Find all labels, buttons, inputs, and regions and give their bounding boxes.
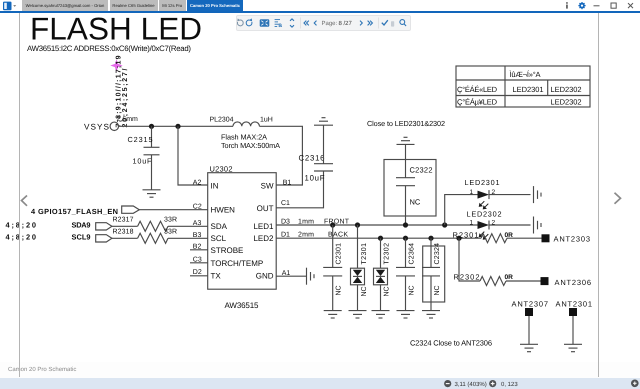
capacitor C2315 [144, 147, 160, 155]
svg-text:R2318: R2318 [113, 228, 134, 235]
svg-text:ÌûÆ¬Í»°A: ÌûÆ¬Í»°A [510, 70, 541, 79]
label PL2304 [210, 117, 234, 124]
svg-text:VSYS: VSYS [84, 123, 110, 132]
label NC C2324 rotated [434, 285, 441, 295]
table legend box [456, 66, 590, 107]
svg-text:SDA9: SDA9 [72, 221, 91, 230]
svg-text:R2317: R2317 [113, 217, 134, 224]
label 1uH [260, 117, 273, 124]
pad ANT2306 [541, 277, 549, 285]
label 1mm [298, 218, 314, 225]
fit screen icon [260, 19, 270, 27]
table header text [510, 70, 541, 79]
resistor R2302 [480, 277, 506, 286]
svg-text:2.6mm: 2.6mm [117, 116, 139, 123]
svg-text:B1: B1 [283, 179, 292, 186]
svg-text:OUT: OUT [257, 204, 274, 213]
label 2.6mm [117, 116, 139, 123]
pin number C3 [193, 256, 202, 263]
svg-text:SCL: SCL [211, 234, 227, 243]
wire C2315 to ground [151, 155, 153, 190]
next page chevrons [360, 21, 372, 26]
pin number C2 [193, 203, 202, 210]
svg-text:AW36515:I2C ADDRESS:0xC6(Write: AW36515:I2C ADDRESS:0xC6(Write)/0xC7(Rea… [27, 44, 191, 53]
ground C2301 [324, 311, 342, 318]
label R2317 [113, 217, 134, 224]
label U2302 [210, 164, 233, 173]
pin name STROBE [211, 246, 244, 255]
pin number D1 [281, 232, 290, 239]
led LED2301 [478, 190, 490, 199]
label LED2301 [465, 178, 500, 187]
wire SCL to resistor [112, 237, 138, 239]
wire LED2302 cathode [489, 224, 531, 226]
wire T2301 column [357, 225, 359, 311]
svg-text:ANT2307: ANT2307 [512, 299, 549, 308]
label NC C2301 rotated [336, 285, 343, 295]
ground C2315 [143, 190, 161, 197]
capacitor C2301 [323, 267, 342, 276]
pin name SW [261, 181, 274, 190]
svg-text:AW36515: AW36515 [225, 301, 260, 310]
label 33R row2 [164, 228, 177, 235]
label C2322 [410, 166, 433, 175]
rotated page ref text A [115, 55, 123, 127]
pin stub TORCH [190, 262, 208, 264]
svg-text:LED2: LED2 [253, 234, 274, 243]
label 2mm [298, 232, 314, 239]
pin name SDA [211, 222, 228, 231]
pin name LED2 [253, 234, 274, 243]
wire R2302 branch [459, 238, 480, 281]
rotate ccw icon [237, 18, 243, 25]
pin number B1 [283, 179, 292, 186]
label 4;8;20 row2 [6, 233, 37, 242]
svg-text:2mm: 2mm [298, 232, 314, 239]
pin name TORCH/TEMP [211, 259, 264, 268]
wire C2316 to top ground [323, 125, 325, 164]
node junction FRONT-LEDriser [442, 222, 447, 227]
svg-text:C2324 Close to ANT2306: C2324 Close to ANT2306 [410, 339, 492, 348]
pin number A2 [193, 179, 202, 186]
wire C2301 column [332, 225, 334, 311]
tvs diode T2301 [351, 268, 365, 285]
label T2301 rotated [361, 243, 368, 265]
search icon [400, 20, 406, 26]
wire C2322 to FRONT [405, 186, 407, 225]
pin number D3 [281, 218, 290, 225]
VSYS connector circle [110, 122, 118, 130]
svg-text:TORCH/TEMP: TORCH/TEMP [211, 259, 264, 268]
wire VSYS horizontal [119, 125, 234, 127]
svg-text:1: 1 [470, 189, 474, 196]
rotated page ref text B [121, 68, 129, 127]
label R2318 [113, 228, 134, 235]
wire SCL to IC [168, 237, 208, 239]
svg-text:NC: NC [410, 198, 421, 207]
svg-text:T2301: T2301 [361, 243, 368, 265]
svg-text:4;8;20: 4;8;20 [6, 233, 37, 242]
svg-text:Ç°ÉÁÉ«LED: Ç°ÉÁÉ«LED [457, 85, 498, 94]
pin 1 LED2302 [470, 219, 474, 226]
note C2324 close to ANT2306 [410, 339, 492, 348]
table row2 col3 [551, 85, 582, 94]
label ANT2301 [556, 299, 593, 308]
capacitor C2324 [422, 267, 440, 276]
svg-text:3,11 (403%): 3,11 (403%) [455, 381, 487, 388]
pin name IN [211, 181, 219, 190]
ground C2324 [422, 311, 440, 318]
svg-text:SDA: SDA [211, 222, 228, 231]
wire inductor to SW corner [259, 126, 302, 185]
wire HWEN [139, 209, 207, 211]
pad ANT2303 [542, 234, 550, 242]
wire R2302 to pad [506, 280, 541, 282]
label 10uF C2315 [133, 156, 153, 165]
svg-text:Page:: Page: [322, 20, 338, 27]
ground LED2301 right-facing [534, 186, 542, 203]
svg-text:R2302: R2302 [454, 273, 480, 282]
wire R2301 to pad [507, 237, 542, 239]
ground A1 right-facing [307, 268, 315, 285]
note close to LED [367, 119, 445, 128]
svg-text:a: a [278, 22, 282, 29]
label NC C2364 rotated [409, 285, 416, 295]
net flag SCL9 [96, 235, 112, 242]
label 4 GPIO157_FLASH_EN [31, 207, 118, 216]
svg-text:C2324: C2324 [434, 243, 441, 265]
svg-text:T2302: T2302 [384, 243, 391, 265]
node junction BACK-C2364 [403, 236, 408, 241]
pin 1 LED2301 [470, 189, 474, 196]
svg-text:LED1: LED1 [253, 222, 274, 231]
pin name LED1 [253, 222, 274, 231]
pin number B2 [193, 244, 202, 251]
svg-text:33R: 33R [164, 217, 177, 224]
svg-text:SCL9: SCL9 [72, 233, 91, 242]
pin name TX [211, 272, 222, 281]
label BACK [328, 232, 348, 239]
svg-text:NC: NC [434, 285, 441, 295]
ground T2302 [372, 311, 390, 318]
inductor PL2304 [233, 122, 259, 126]
label 4;8;20 row1 [6, 221, 37, 230]
first page chevrons [304, 21, 317, 26]
svg-text:GND: GND [256, 272, 274, 281]
footer strip [0, 362, 640, 378]
resistor R2301 [481, 234, 507, 243]
svg-text:LED2302: LED2302 [467, 210, 502, 219]
wire FRONT LED1 [276, 224, 477, 226]
nav chevron left [22, 196, 28, 206]
svg-text:4;8;20: 4;8;20 [6, 221, 37, 230]
annotate check icon [382, 20, 388, 25]
svg-text:1: 1 [470, 219, 474, 226]
ground T2301 [349, 311, 367, 318]
wire OUT [276, 171, 323, 208]
svg-text:A2: A2 [193, 179, 202, 186]
label C2301 rotated [336, 243, 343, 265]
node junction BACK-C2324 [428, 236, 433, 241]
pin name GND [256, 272, 274, 281]
node junction FRONT-T2301 [355, 222, 360, 227]
wire LED2301 cathode [489, 194, 531, 196]
svg-text:LED2301: LED2301 [465, 178, 500, 187]
svg-text:NC: NC [409, 285, 416, 295]
label NC C2322 [410, 198, 421, 207]
svg-text:STROBE: STROBE [211, 246, 244, 255]
nav chevron right [615, 193, 621, 204]
pin number D2 [193, 269, 202, 276]
ground C2364 [397, 311, 415, 318]
label ANT2303 [554, 234, 591, 243]
svg-text:IN: IN [211, 181, 219, 190]
svg-text:C2301: C2301 [336, 243, 343, 265]
label FRONT [324, 218, 350, 225]
wire C2364 column [405, 238, 407, 310]
resistor R2318 [138, 233, 168, 243]
node junction VSYS-IN [175, 124, 180, 129]
magenta star marker [110, 59, 122, 71]
label C2316 [299, 154, 325, 163]
viewer toolbar [236, 15, 411, 31]
pin number C1 [281, 200, 290, 207]
svg-text:NC: NC [336, 285, 343, 295]
svg-text:4 GPIO157_FLASH_EN: 4 GPIO157_FLASH_EN [31, 207, 118, 216]
svg-text:1mm: 1mm [298, 218, 314, 225]
pad ANT2307 [525, 308, 533, 316]
label SDA9 [72, 221, 91, 230]
svg-text:33R: 33R [164, 228, 177, 235]
node junction BACK-R2302 [456, 236, 461, 241]
wire C2315 branch [151, 126, 153, 147]
label ANT2306 [555, 278, 592, 287]
node junction FRONT-C2301 [330, 222, 335, 227]
wire riser to LED2301 [445, 195, 478, 225]
pin number B3 [193, 232, 202, 239]
table row3 col1 [457, 98, 498, 107]
svg-text:FLASH LED: FLASH LED [30, 11, 202, 47]
svg-text:R2301: R2301 [453, 231, 479, 240]
svg-text:D2: D2 [193, 269, 202, 276]
label NC T2302 rotated [384, 286, 391, 296]
pad ANT2301 [569, 308, 577, 316]
svg-text:BACK: BACK [328, 232, 348, 239]
ground ANT2307 [520, 344, 538, 351]
svg-text:10uF: 10uF [305, 174, 325, 183]
label 0R R2301 [505, 232, 514, 239]
pin stub STROBE [190, 249, 208, 251]
scroll updown icon [290, 19, 294, 27]
svg-text:C2364: C2364 [409, 243, 416, 265]
svg-text:8 /27: 8 /27 [339, 20, 353, 27]
wire SDA to resistor [112, 225, 138, 227]
svg-text:C2316: C2316 [299, 154, 325, 163]
label ANT2307 [512, 299, 549, 308]
capacitor C2364 [396, 267, 415, 276]
svg-text:NC: NC [361, 286, 368, 296]
blue separator line [0, 11, 640, 12]
svg-text:U2302: U2302 [210, 164, 233, 173]
label NC T2301 rotated [361, 286, 368, 296]
svg-text:D3: D3 [281, 218, 290, 225]
label AW36515 [225, 301, 260, 310]
svg-text:10uF: 10uF [133, 156, 153, 165]
pin 2 LED2301 [492, 189, 496, 196]
node junction VSYS-C2315 [149, 124, 154, 129]
pin name HWEN [211, 206, 236, 215]
wire IN branch [178, 126, 208, 185]
wire C2322 top [405, 144, 407, 177]
pin stub TX [190, 275, 208, 277]
svg-text:LED2302: LED2302 [551, 98, 582, 107]
svg-text:Close to LED2301&2302: Close to LED2301&2302 [367, 119, 445, 128]
rotate cw icon [246, 18, 252, 25]
label SCL9 [72, 233, 91, 242]
svg-text:C2315: C2315 [128, 135, 153, 144]
note flash max [221, 133, 267, 142]
label 33R row1 [164, 217, 177, 224]
svg-text:D1: D1 [281, 232, 290, 239]
svg-text:ANT2306: ANT2306 [555, 278, 592, 287]
svg-text:PL2304: PL2304 [210, 117, 234, 124]
wire C2324 column [430, 238, 432, 310]
svg-text:LED2302: LED2302 [551, 85, 582, 94]
svg-text:C1: C1 [281, 200, 290, 207]
wire BACK LED2 [276, 237, 481, 239]
ground LED2302 right-facing [534, 217, 542, 234]
table row2 col1 [457, 85, 498, 94]
net flag SDA9 [96, 223, 112, 230]
text select icon [275, 20, 280, 27]
label C2315 [128, 135, 153, 144]
pin name SCL [211, 234, 227, 243]
wire SDA to IC [168, 225, 208, 227]
svg-text:HWEN: HWEN [211, 206, 236, 215]
node junction BACK-T2302 [378, 236, 383, 241]
label C2324 rotated [434, 243, 441, 265]
svg-text:0, 123: 0, 123 [501, 381, 518, 388]
label 0R R2302 [505, 274, 514, 281]
table row3 col3 [551, 98, 582, 107]
op IC U2302 box [208, 173, 277, 290]
note torch max [221, 141, 280, 150]
wire GND pin to ground [276, 275, 306, 277]
node junction FRONT-C2322 [403, 222, 408, 227]
port VSYS [84, 123, 110, 132]
table row2 col2 [513, 85, 544, 94]
svg-text:LED2301: LED2301 [513, 85, 544, 94]
label R2302 [454, 273, 480, 282]
label R2301 [453, 231, 479, 240]
ground C2316 inverted [314, 118, 333, 126]
tvs diode T2302 [374, 268, 388, 285]
capacitor C2316 [314, 164, 333, 171]
pin name OUT [257, 204, 274, 213]
label 10uF C2316 [305, 174, 325, 183]
module box C2324 [423, 246, 445, 302]
wire T2302 column [380, 238, 382, 310]
label T2302 rotated [384, 243, 391, 265]
left page divider [19, 13, 20, 378]
svg-text:SW: SW [261, 181, 274, 190]
ground C2322 inverted [397, 137, 415, 144]
resistor R2317 [138, 221, 168, 231]
status bar [0, 378, 640, 389]
subtitle I2C address note [27, 44, 191, 53]
led arrows LED2301 [479, 201, 489, 209]
pin 2 LED2302 [492, 219, 496, 226]
svg-text:C2322: C2322 [410, 166, 433, 175]
led LED2302 [478, 221, 490, 230]
wire ANT2307 to ground [528, 316, 530, 344]
label LED2302 [467, 210, 502, 219]
capacitor C2322 [396, 178, 415, 186]
wire ANT2301 to ground [572, 316, 574, 344]
svg-text:NC: NC [384, 286, 391, 296]
net flag GPIO157_FLASH_EN [122, 206, 140, 213]
led arrows LED2302 [479, 232, 489, 240]
svg-text:Torch MAX:500mA: Torch MAX:500mA [221, 141, 280, 150]
svg-text:Ç°ÉÁµ¥LED: Ç°ÉÁµ¥LED [457, 98, 498, 107]
svg-text:1uH: 1uH [260, 117, 273, 124]
browser title bar [0, 0, 640, 11]
pin number A1 [282, 270, 291, 277]
pin number A3 [193, 220, 202, 227]
label C2364 rotated [409, 243, 416, 265]
svg-text:ANT2301: ANT2301 [556, 299, 593, 308]
svg-text:ANT2303: ANT2303 [554, 234, 591, 243]
right page divider [598, 13, 599, 378]
svg-text:0R: 0R [505, 274, 514, 281]
svg-text:FRONT: FRONT [324, 218, 350, 225]
svg-text:TX: TX [211, 272, 222, 281]
title FLASH LED [30, 11, 202, 47]
ground ANT2301 [564, 344, 582, 351]
module box C2322 [384, 160, 436, 217]
